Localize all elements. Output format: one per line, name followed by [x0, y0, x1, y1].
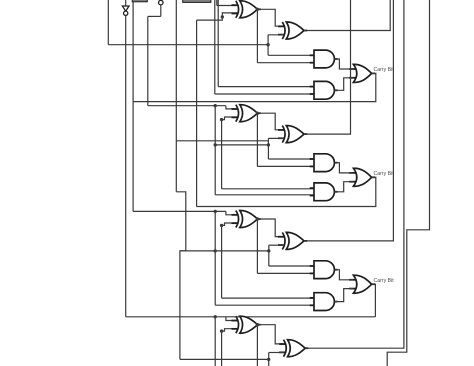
- wire carry to XOR4b lower input: [268, 353, 270, 360]
- wire Cin horizontal to block1: [108, 44, 268, 46]
- wire XOR1-1 lower input: [197, 13, 238, 20]
- wire XOR4a out down (cut): [256, 325, 258, 366]
- wire XOR1-2 lower input: [222, 117, 238, 120]
- label Carry Bit 3: [374, 278, 395, 284]
- inverter U2 output bubble (gate cut off at top): [159, 0, 164, 5]
- wire lane down: [221, 331, 223, 366]
- wire OR3 carry return: [372, 284, 376, 317]
- node XOR1-3 branch: [220, 224, 223, 227]
- inverter U1 (pointing down): [122, 6, 129, 15]
- and gate AND1b (A AND B): [310, 81, 338, 99]
- wire sum bit 1 to top: [304, 0, 390, 31]
- node L4 tap: [214, 315, 217, 318]
- wire lane A (input A bit1): [214, 0, 216, 94]
- node carry3 cross: [214, 249, 217, 252]
- wire OR2 carry return: [197, 177, 376, 206]
- xor gate XOR1b (sum bit 1): [278, 22, 307, 39]
- node XOR1-2 branch: [220, 118, 223, 121]
- wire carry down to AND2a: [267, 145, 269, 159]
- wire tap down: [214, 317, 216, 366]
- wire XOR2a out to XOR2b top input: [257, 113, 284, 130]
- xor gate XOR2b (sum bit 2): [278, 126, 307, 143]
- wire XOR1-4 lower input: [222, 329, 238, 331]
- wire into AND3a upper input: [269, 265, 314, 267]
- wire sum bit 4 to top: [305, 0, 404, 348]
- wire block2 aux line: [176, 140, 268, 142]
- xor gate XOR3b (sum bit 3): [278, 232, 307, 249]
- label Carry Bit 2: [374, 171, 395, 177]
- label Carry Bit 1: [374, 67, 395, 73]
- wire into AND3a lower input: [257, 272, 314, 274]
- or gate OR3 (carry out bit 3): [349, 275, 375, 293]
- wire sum bit 3 to top: [304, 0, 393, 241]
- xor gate XOR2a (A xor B): [232, 105, 261, 122]
- node XOR1a output: [256, 8, 259, 11]
- node XOR3a output: [256, 217, 259, 220]
- node XOR2a output: [256, 112, 259, 115]
- wire AND2-1 lower input: [215, 93, 314, 95]
- wire XOR1-3 upper input jog: [226, 211, 237, 214]
- node XOR1-4 branch: [220, 329, 223, 332]
- wire AND3b out to OR3: [334, 289, 353, 302]
- wire XOR1-4 upper input jog: [226, 317, 237, 321]
- wire block3 carry line: [180, 250, 269, 252]
- wire: [148, 15, 161, 17]
- wire: [125, 0, 127, 6]
- wire AND2-2 lower input: [215, 194, 314, 196]
- wire carry to XOR3b lower input: [268, 245, 270, 251]
- wire XOR3a out down to AND3a: [256, 219, 258, 273]
- wire into AND2a lower input: [257, 165, 314, 167]
- wire AND1b out to OR1: [334, 78, 353, 91]
- wire carry to XOR2b lower input: [267, 138, 269, 145]
- and gate AND1a (carry AND xor): [310, 50, 338, 68]
- node carry2 branch: [214, 143, 217, 146]
- wire jog to lower lane: [176, 192, 186, 251]
- wire XOR2a out down to AND2a: [256, 113, 258, 166]
- node carry-in bit 2: [267, 143, 270, 146]
- node XOR1-1 input junction: [221, 15, 224, 18]
- wire block3 input line: [133, 210, 226, 212]
- wire lane B (input B bit1): [217, 0, 219, 87]
- wire AND2-2 upper input: [222, 188, 314, 190]
- wire carry down to AND3a: [268, 251, 270, 266]
- wire tap down: [214, 211, 216, 305]
- wire into AND2a upper input: [268, 158, 314, 160]
- wire stub: [269, 244, 284, 246]
- wire lane C: [216, 0, 218, 6]
- or gate OR1 (carry out bit 1): [349, 64, 375, 82]
- wire AND2a out to OR2: [334, 163, 353, 173]
- wire down to block2 input line: [147, 16, 149, 105]
- splitter stub S1 (cut off at top): [132, 0, 147, 2]
- xor gate XOR4a (A xor B): [232, 316, 261, 333]
- xor gate XOR3a (A xor B): [232, 210, 261, 227]
- wire XOR4a out to XOR4b top input: [257, 325, 284, 344]
- and gate AND2a (carry AND xor): [310, 154, 338, 172]
- wire AND3a out to OR3: [334, 270, 353, 280]
- or gate OR2 (carry out bit 2): [349, 168, 375, 186]
- node L3 tap: [214, 210, 217, 213]
- wire carry down (cut): [268, 359, 270, 366]
- wire XOR1a out to XOR1b top input: [257, 9, 284, 26]
- wire lane down: [221, 225, 223, 298]
- wire final carry: [387, 0, 429, 366]
- xor gate XOR1a (A xor B): [232, 1, 261, 18]
- svg-text:Carry Bit: Carry Bit: [374, 278, 395, 284]
- wire AND2-3 lower input: [215, 304, 314, 306]
- wire AND1a out to OR1: [334, 59, 353, 69]
- wire stub: [268, 34, 284, 36]
- wire into AND1a lower input: [257, 62, 314, 64]
- node carry-in bit 4: [267, 358, 270, 361]
- wire block2 carry line: [215, 144, 268, 146]
- wire XOR1-3 lower input: [222, 223, 238, 225]
- and gate AND2b (A AND B): [310, 183, 338, 201]
- wire XOR1-2 upper input jog: [226, 106, 237, 109]
- splitter stub S2 (cut off at top): [183, 0, 211, 2]
- and gate AND3b (A AND B): [310, 293, 338, 311]
- svg-text:Carry Bit: Carry Bit: [374, 171, 395, 177]
- node XOR4a output: [256, 323, 259, 326]
- wire stub: [269, 352, 285, 354]
- wire OR1 carry return: [133, 73, 376, 101]
- wire tap down: [214, 106, 216, 195]
- wire U1 output down to block4 input line: [125, 16, 127, 317]
- svg-text:Carry Bit: Carry Bit: [374, 67, 395, 73]
- node L2 tap: [214, 104, 217, 107]
- wire lane down: [221, 120, 223, 189]
- wire AND2-1 upper input: [218, 86, 314, 88]
- wire vertical net N1: [196, 20, 198, 206]
- and gate AND3a (carry AND xor): [310, 261, 338, 279]
- xor gate XOR4b (sum bit 4): [279, 340, 308, 357]
- wire block4 carry line: [180, 358, 269, 360]
- node carry-in bit 3: [267, 249, 270, 252]
- wire stub: [268, 137, 284, 139]
- wire sum bit 2 to top: [304, 0, 351, 134]
- wire from U2 bubble: [160, 5, 162, 17]
- wire from S1 down to block3 input line: [132, 2, 134, 212]
- node carry-in bit 1: [266, 43, 269, 46]
- wire XOR3a out to XOR3b top input: [257, 219, 284, 237]
- wire AND2b out to OR2: [334, 182, 353, 192]
- wire block4 input line / carry3 return: [126, 316, 376, 318]
- wire block2 input line: [148, 105, 226, 107]
- wire XOR1-1 upper input: [217, 5, 238, 7]
- wire AND2-3 upper input: [222, 297, 314, 299]
- wire down to block4 carry line: [180, 251, 186, 360]
- wire carry down to AND1a: [267, 45, 269, 56]
- wire Cin vertical: [107, 0, 109, 45]
- wire into AND1a upper input: [268, 54, 314, 56]
- wire XOR1a out down to AND1a: [256, 9, 258, 62]
- wire vertical from top: [175, 0, 177, 192]
- wire carry to XOR1b lower input: [267, 35, 269, 45]
